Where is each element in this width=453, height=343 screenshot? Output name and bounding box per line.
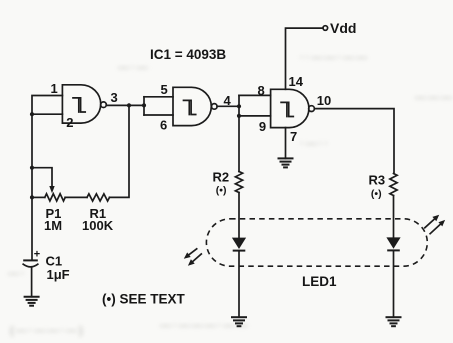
pin 1 label	[51, 81, 58, 96]
ground LED1a	[231, 317, 247, 326]
P1 label	[44, 206, 62, 233]
LED1 dashed enclosure	[206, 219, 427, 266]
see-text note	[102, 292, 185, 307]
wire wiper link	[32, 168, 52, 187]
svg-text:IC1 = 4093B: IC1 = 4093B	[150, 47, 226, 62]
wire pin9 input of U1c	[239, 115, 271, 117]
resistor R1	[87, 194, 110, 201]
wire R2 to LED1a	[238, 193, 240, 238]
wire pin8 input of U1c	[239, 94, 271, 96]
svg-text:10: 10	[317, 93, 331, 108]
node junction gate1 inputs	[30, 112, 34, 116]
resistor R2	[235, 172, 242, 193]
svg-text:14: 14	[289, 74, 304, 89]
wire gate3 input tie	[238, 95, 240, 116]
node Vdd label	[330, 20, 356, 36]
ground LED1b	[386, 317, 402, 326]
wire C1 to ground	[31, 267, 33, 297]
wire left rail down to C1	[31, 114, 33, 260]
svg-text:2: 2	[66, 115, 73, 130]
R2 label	[213, 170, 230, 197]
wire R3 to LED1b	[393, 196, 395, 238]
svg-text:8: 8	[258, 83, 265, 98]
wire rail to P1	[32, 196, 45, 198]
svg-text:3: 3	[111, 90, 118, 105]
IC1 label	[150, 47, 226, 62]
wire LED1b to ground	[393, 252, 395, 318]
pin 4 label	[224, 93, 232, 108]
wire gate2 input tie	[143, 97, 145, 115]
svg-text:1: 1	[51, 81, 58, 96]
LED1 label	[302, 274, 337, 289]
pin 14 label	[289, 74, 304, 89]
wire R2 top lead	[238, 116, 240, 172]
capacitor C1	[23, 249, 40, 267]
resistor R3	[390, 174, 397, 196]
svg-text:1μF: 1μF	[47, 267, 70, 282]
node junction pin4-tie	[237, 104, 241, 108]
svg-text:+: +	[34, 249, 40, 261]
node junction feedback tap	[127, 103, 131, 107]
wire pin5 input of U1b	[144, 96, 173, 98]
svg-text:100K: 100K	[82, 218, 114, 233]
svg-text:LED1: LED1	[302, 274, 337, 289]
svg-text:R2: R2	[213, 170, 230, 185]
LED D1b	[386, 237, 400, 250]
op-amp U1c NAND gate	[271, 89, 315, 127]
svg-text:(•): (•)	[371, 188, 382, 200]
R1 label	[82, 206, 114, 233]
node junction rail-P1	[30, 195, 34, 199]
op-amp U1b NAND gate	[173, 87, 217, 125]
svg-text:(•): (•)	[216, 185, 227, 197]
node junction pin9-tie	[237, 114, 241, 118]
light arrows left	[184, 249, 202, 266]
wire pin7 to ground	[285, 128, 287, 159]
wire LED1a to ground	[238, 252, 240, 318]
wire pin3 output of U1a	[106, 104, 144, 106]
ground pin7	[278, 158, 294, 167]
svg-text:Vdd: Vdd	[330, 20, 356, 36]
svg-text:6: 6	[160, 118, 167, 133]
R3 label	[369, 173, 386, 200]
pin 6 label	[160, 118, 167, 133]
svg-text:9: 9	[259, 119, 266, 134]
wire feedback drop to R1	[110, 105, 130, 197]
pin 2 label	[66, 115, 73, 130]
ground C1	[24, 297, 40, 306]
LED D1a	[232, 238, 246, 251]
wire pin10 output to right rail	[314, 109, 394, 174]
op-amp U1a NAND gate	[62, 85, 106, 123]
light arrows right	[425, 215, 445, 234]
potentiometer P1	[45, 194, 65, 201]
wire pin2 input of U1a	[32, 113, 62, 115]
wire pin14 to Vdd	[286, 28, 323, 89]
svg-text:7: 7	[290, 129, 297, 144]
wire pin1 input of U1a	[32, 96, 62, 115]
svg-text:1M: 1M	[44, 218, 62, 233]
pin 7 label	[290, 129, 297, 144]
pin 5 label	[161, 82, 168, 97]
node junction rail-wiper	[30, 166, 34, 170]
C1 label	[46, 254, 70, 283]
pin 3 label	[111, 90, 118, 105]
svg-text:(•) SEE TEXT: (•) SEE TEXT	[102, 292, 185, 307]
pin 10 label	[317, 93, 331, 108]
wiper arrow of P1	[49, 186, 54, 193]
pin 9 label	[259, 119, 266, 134]
pin 8 label	[258, 83, 265, 98]
wire pin6 input of U1b	[144, 114, 173, 116]
node junction gate2 input tie	[142, 103, 146, 107]
svg-text:R3: R3	[369, 173, 386, 188]
node Vdd terminal	[323, 26, 328, 31]
wire P1 to R1	[65, 196, 87, 198]
svg-text:5: 5	[161, 82, 168, 97]
wire pin4 output of U1b	[217, 105, 239, 107]
